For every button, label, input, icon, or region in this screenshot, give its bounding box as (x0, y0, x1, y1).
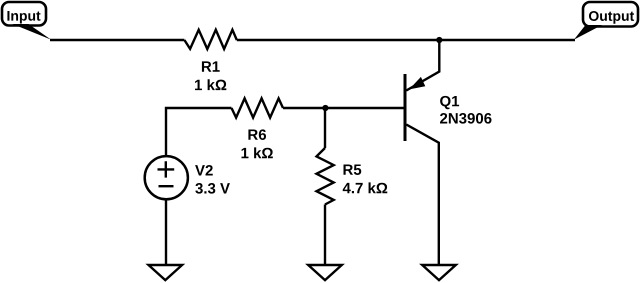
emitter wire (from top node down to bar) (406, 40, 439, 91)
wire: junction down to R5 (324, 108, 326, 148)
value 2N3906 (440, 113, 491, 124)
ground (under R5) (308, 265, 342, 280)
node Input flag (2, 2, 46, 26)
wire: input tail to R1 (50, 39, 184, 41)
resistor R6 (232, 98, 284, 117)
Output text (589, 11, 634, 24)
label Q1 (440, 96, 459, 109)
Output tail (574, 25, 602, 40)
node Output flag (583, 2, 638, 27)
label R6 (248, 129, 266, 140)
voltage source V2 (145, 156, 188, 199)
wire: R1 to output tail (237, 39, 575, 41)
resistor R5 (317, 148, 334, 205)
value 4.7 kΩ (R5) (343, 182, 388, 193)
collector wire (bar down to ground) (406, 125, 439, 266)
wire: V2 top to base (with corner) (166, 108, 232, 155)
plus sign (V2) (158, 161, 175, 177)
ground (under V2) (149, 265, 183, 280)
Input tail (13, 24, 52, 40)
value 3.3 V (195, 183, 230, 194)
node dot: emitter junction on top wire (436, 37, 442, 43)
label R1 (202, 61, 220, 71)
resistor R1 (184, 30, 236, 49)
emitter arrow (PNP, points to base) (409, 77, 425, 90)
wire: V2 bottom to ground (165, 199, 167, 266)
label R5 (344, 164, 362, 174)
node dot: base/R5 junction (322, 105, 328, 111)
wire: R5 to ground (324, 205, 326, 266)
minus sign (V2) (159, 185, 174, 187)
value 1 kΩ (R1) (195, 79, 226, 90)
label V2 (195, 165, 213, 175)
transistor Q1 base bar (404, 74, 407, 141)
Input text (7, 11, 40, 24)
ground (under Q1 collector) (422, 265, 456, 280)
wire: R6 to base bar (283, 107, 405, 109)
value 1 kΩ (R6) (242, 147, 273, 158)
